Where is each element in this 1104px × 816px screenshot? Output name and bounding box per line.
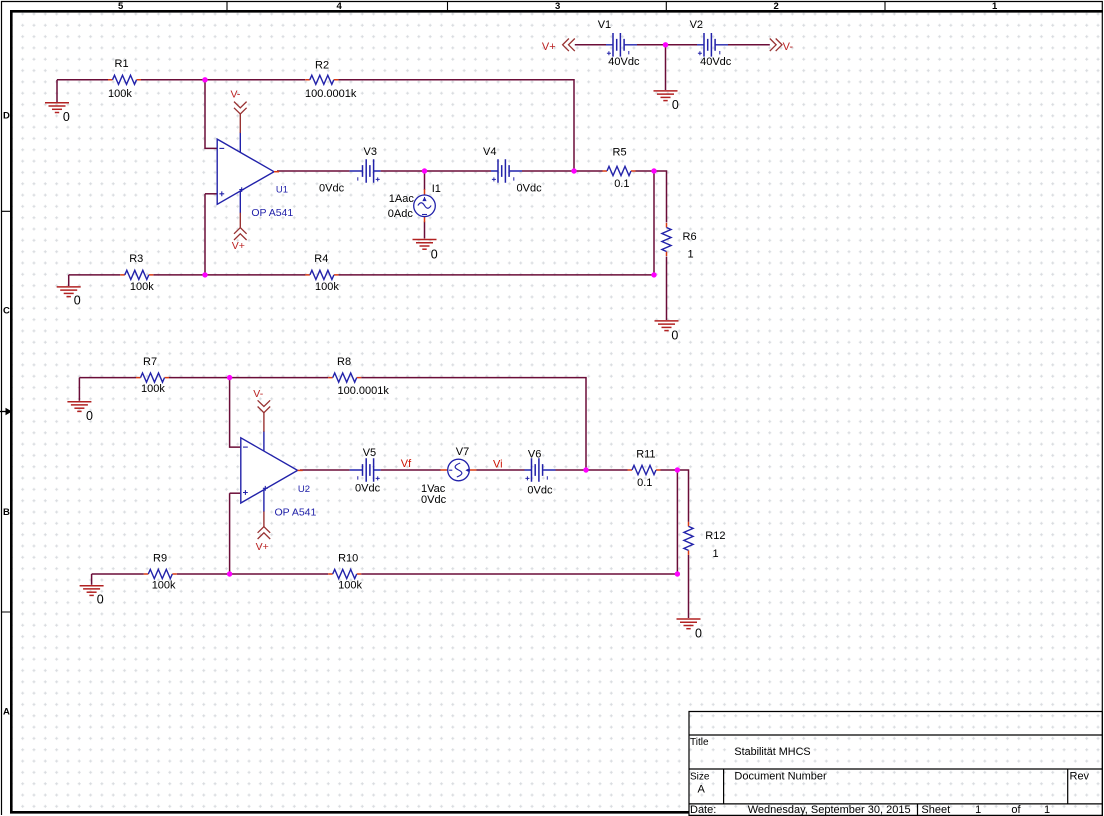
wire — [728, 44, 770, 46]
voltage source V4 — [491, 159, 522, 183]
ruler zone ticks left — [2, 211, 12, 612]
svg-text:100k: 100k — [338, 580, 362, 592]
ground — [67, 402, 91, 412]
svg-text:R9: R9 — [153, 553, 167, 565]
resistor R5 — [603, 166, 636, 175]
svg-text:V+: V+ — [542, 41, 556, 53]
junction — [202, 77, 207, 82]
wire — [78, 378, 80, 401]
svg-text:1: 1 — [1044, 804, 1050, 816]
wire — [277, 170, 350, 172]
voltage source V6 — [525, 458, 556, 482]
svg-text:R8: R8 — [337, 356, 351, 368]
wire — [661, 469, 678, 471]
resistor R11 — [628, 465, 661, 474]
resistor R9 — [144, 569, 177, 578]
svg-text:R1: R1 — [115, 58, 129, 70]
svg-text:V6: V6 — [528, 449, 541, 461]
svg-text:100k: 100k — [315, 281, 339, 293]
wire — [92, 573, 144, 575]
svg-text:0Adc: 0Adc — [388, 208, 414, 220]
voltage source V2 — [697, 33, 728, 57]
svg-text:0Vdc: 0Vdc — [319, 183, 345, 195]
resistor R6 — [662, 223, 671, 256]
svg-text:0Vdc: 0Vdc — [517, 183, 543, 195]
op-amp U1 — [217, 132, 279, 213]
wire — [68, 275, 70, 286]
junction — [651, 168, 656, 173]
svg-text:Document Number: Document Number — [734, 771, 827, 783]
svg-text:0: 0 — [672, 98, 679, 112]
svg-text:R6: R6 — [683, 231, 697, 243]
svg-text:0: 0 — [695, 627, 702, 641]
svg-text:0Vdc: 0Vdc — [421, 494, 447, 506]
svg-text:Rev: Rev — [1070, 771, 1090, 783]
wire — [169, 377, 230, 379]
svg-text:V5: V5 — [363, 447, 376, 459]
svg-text:100k: 100k — [130, 281, 154, 293]
svg-text:A: A — [698, 784, 706, 796]
wire — [69, 274, 121, 276]
ac source V7 — [441, 459, 477, 481]
svg-text:R10: R10 — [338, 553, 358, 565]
wire — [361, 573, 677, 575]
wire — [556, 469, 628, 471]
svg-text:R5: R5 — [613, 146, 627, 158]
wire — [676, 470, 678, 574]
svg-text:V-: V- — [783, 41, 794, 53]
resistor R3 — [120, 270, 153, 279]
wire — [300, 469, 350, 471]
wire — [230, 378, 241, 448]
wire — [688, 555, 690, 618]
svg-text:Wednesday, September 30, 2015: Wednesday, September 30, 2015 — [748, 804, 911, 816]
svg-text:Size: Size — [690, 771, 710, 782]
svg-text:R11: R11 — [636, 449, 655, 461]
wire — [205, 193, 217, 195]
ground — [677, 619, 701, 629]
ground — [654, 91, 678, 101]
wire — [361, 378, 586, 470]
resistor R8 — [328, 373, 361, 382]
wire — [338, 80, 574, 171]
svg-text:V4: V4 — [483, 146, 496, 158]
svg-text:2: 2 — [774, 1, 779, 12]
svg-text:Stabilität MHCS: Stabilität MHCS — [734, 746, 810, 758]
svg-text:V+: V+ — [256, 541, 269, 553]
resistor R4 — [305, 270, 338, 279]
svg-text:Sheet: Sheet — [921, 804, 950, 816]
svg-text:OP A541: OP A541 — [251, 207, 293, 219]
svg-text:V3: V3 — [364, 146, 377, 158]
svg-text:0.1: 0.1 — [637, 477, 652, 489]
junction — [663, 42, 668, 47]
wire — [677, 470, 688, 522]
voltage source V5 — [350, 458, 381, 482]
resistor R10 — [328, 569, 361, 578]
junction — [202, 272, 207, 277]
svg-text:C: C — [3, 306, 10, 317]
wire — [205, 79, 305, 81]
svg-text:Vi: Vi — [493, 459, 503, 471]
svg-text:40Vdc: 40Vdc — [700, 56, 732, 68]
svg-text:U2: U2 — [298, 484, 310, 495]
svg-text:V-: V- — [253, 388, 263, 400]
junction — [583, 467, 588, 472]
svg-text:R7: R7 — [143, 356, 157, 368]
svg-text:1: 1 — [975, 804, 981, 816]
wire — [666, 257, 668, 321]
svg-text:Date:: Date: — [690, 804, 716, 816]
svg-text:100.0001k: 100.0001k — [338, 385, 390, 397]
wire — [575, 44, 606, 46]
svg-text:V2: V2 — [690, 19, 703, 31]
wire — [204, 194, 206, 275]
title block — [689, 712, 1102, 816]
wire — [653, 171, 655, 275]
svg-text:I1: I1 — [432, 183, 441, 195]
svg-text:100k: 100k — [141, 383, 165, 395]
svg-text:A: A — [3, 707, 10, 718]
wire — [229, 493, 231, 574]
wire — [522, 170, 603, 172]
svg-text:0: 0 — [671, 329, 678, 343]
svg-text:3: 3 — [555, 1, 560, 12]
V+ power U1 — [234, 213, 247, 240]
svg-text:R2: R2 — [315, 60, 329, 72]
wire — [477, 469, 525, 471]
ground — [413, 240, 437, 250]
svg-text:1Aac: 1Aac — [389, 193, 415, 205]
wire — [205, 274, 305, 276]
ground — [655, 321, 679, 331]
svg-text:100k: 100k — [108, 88, 132, 100]
V- power U1 — [234, 102, 247, 133]
junction — [675, 467, 680, 472]
svg-text:0: 0 — [97, 593, 104, 607]
svg-text:0.1: 0.1 — [614, 178, 629, 190]
resistor R12 — [684, 522, 693, 555]
svg-text:1: 1 — [992, 1, 998, 12]
wire — [205, 80, 217, 149]
wire — [230, 377, 329, 379]
svg-text:40Vdc: 40Vdc — [608, 56, 640, 68]
svg-text:1: 1 — [688, 249, 694, 261]
svg-text:of: of — [1011, 804, 1021, 816]
ground — [57, 287, 81, 297]
svg-text:100.0001k: 100.0001k — [305, 88, 357, 100]
resistor R1 — [108, 75, 141, 84]
voltage source V3 — [350, 159, 381, 183]
current source I1 — [414, 189, 436, 222]
wire — [141, 79, 205, 81]
op-amp U2 — [241, 431, 303, 512]
svg-text:U1: U1 — [276, 185, 288, 196]
resistor R2 — [305, 75, 338, 84]
wire — [230, 492, 241, 494]
wire — [424, 171, 426, 190]
svg-text:B: B — [3, 507, 10, 518]
wire — [381, 170, 491, 172]
svg-text:V-: V- — [231, 89, 241, 101]
wire — [637, 44, 697, 46]
svg-text:1: 1 — [713, 548, 719, 560]
resistor R7 — [136, 373, 169, 382]
svg-text:V+: V+ — [232, 240, 245, 252]
ruler zone ticks top — [227, 2, 885, 12]
svg-text:0Vdc: 0Vdc — [527, 485, 553, 497]
svg-text:V1: V1 — [598, 19, 611, 31]
wire — [57, 79, 108, 81]
svg-text:R4: R4 — [314, 253, 328, 265]
svg-text:Title: Title — [690, 737, 709, 748]
ground — [45, 103, 69, 113]
svg-text:0: 0 — [63, 110, 70, 124]
junction — [422, 168, 427, 173]
svg-text:4: 4 — [337, 1, 343, 12]
wire — [91, 574, 93, 585]
wire — [424, 222, 426, 239]
svg-text:0: 0 — [74, 293, 81, 307]
wire — [177, 573, 230, 575]
wire — [338, 274, 654, 276]
V- power U2 — [258, 400, 271, 431]
title block labels — [690, 737, 1090, 816]
wire — [381, 469, 441, 471]
svg-text:0: 0 — [431, 248, 438, 262]
svg-text:0: 0 — [86, 409, 93, 423]
svg-text:OP A541: OP A541 — [275, 506, 317, 518]
svg-text:5: 5 — [118, 1, 124, 12]
V- power rail arrow — [770, 39, 782, 52]
svg-text:R12: R12 — [705, 530, 725, 542]
junction — [651, 272, 656, 277]
svg-text:D: D — [3, 111, 10, 122]
svg-text:0Vdc: 0Vdc — [355, 483, 381, 495]
V+ power U2 — [258, 511, 271, 539]
junction — [571, 168, 576, 173]
svg-text:100k: 100k — [152, 580, 176, 592]
sheet pointer arrow — [0, 408, 12, 416]
svg-text:Vf: Vf — [401, 458, 412, 470]
svg-text:V7: V7 — [456, 446, 469, 458]
wire — [79, 377, 136, 379]
junction — [227, 375, 232, 380]
wire — [56, 80, 58, 102]
wire — [153, 274, 205, 276]
junction — [227, 571, 232, 576]
svg-text:R3: R3 — [129, 253, 143, 265]
voltage source V1 — [606, 33, 637, 57]
wire — [230, 573, 329, 575]
junction — [675, 571, 680, 576]
V+ power rail arrow — [563, 39, 575, 52]
wire — [665, 45, 667, 90]
wire — [636, 171, 667, 223]
ground — [80, 586, 104, 596]
